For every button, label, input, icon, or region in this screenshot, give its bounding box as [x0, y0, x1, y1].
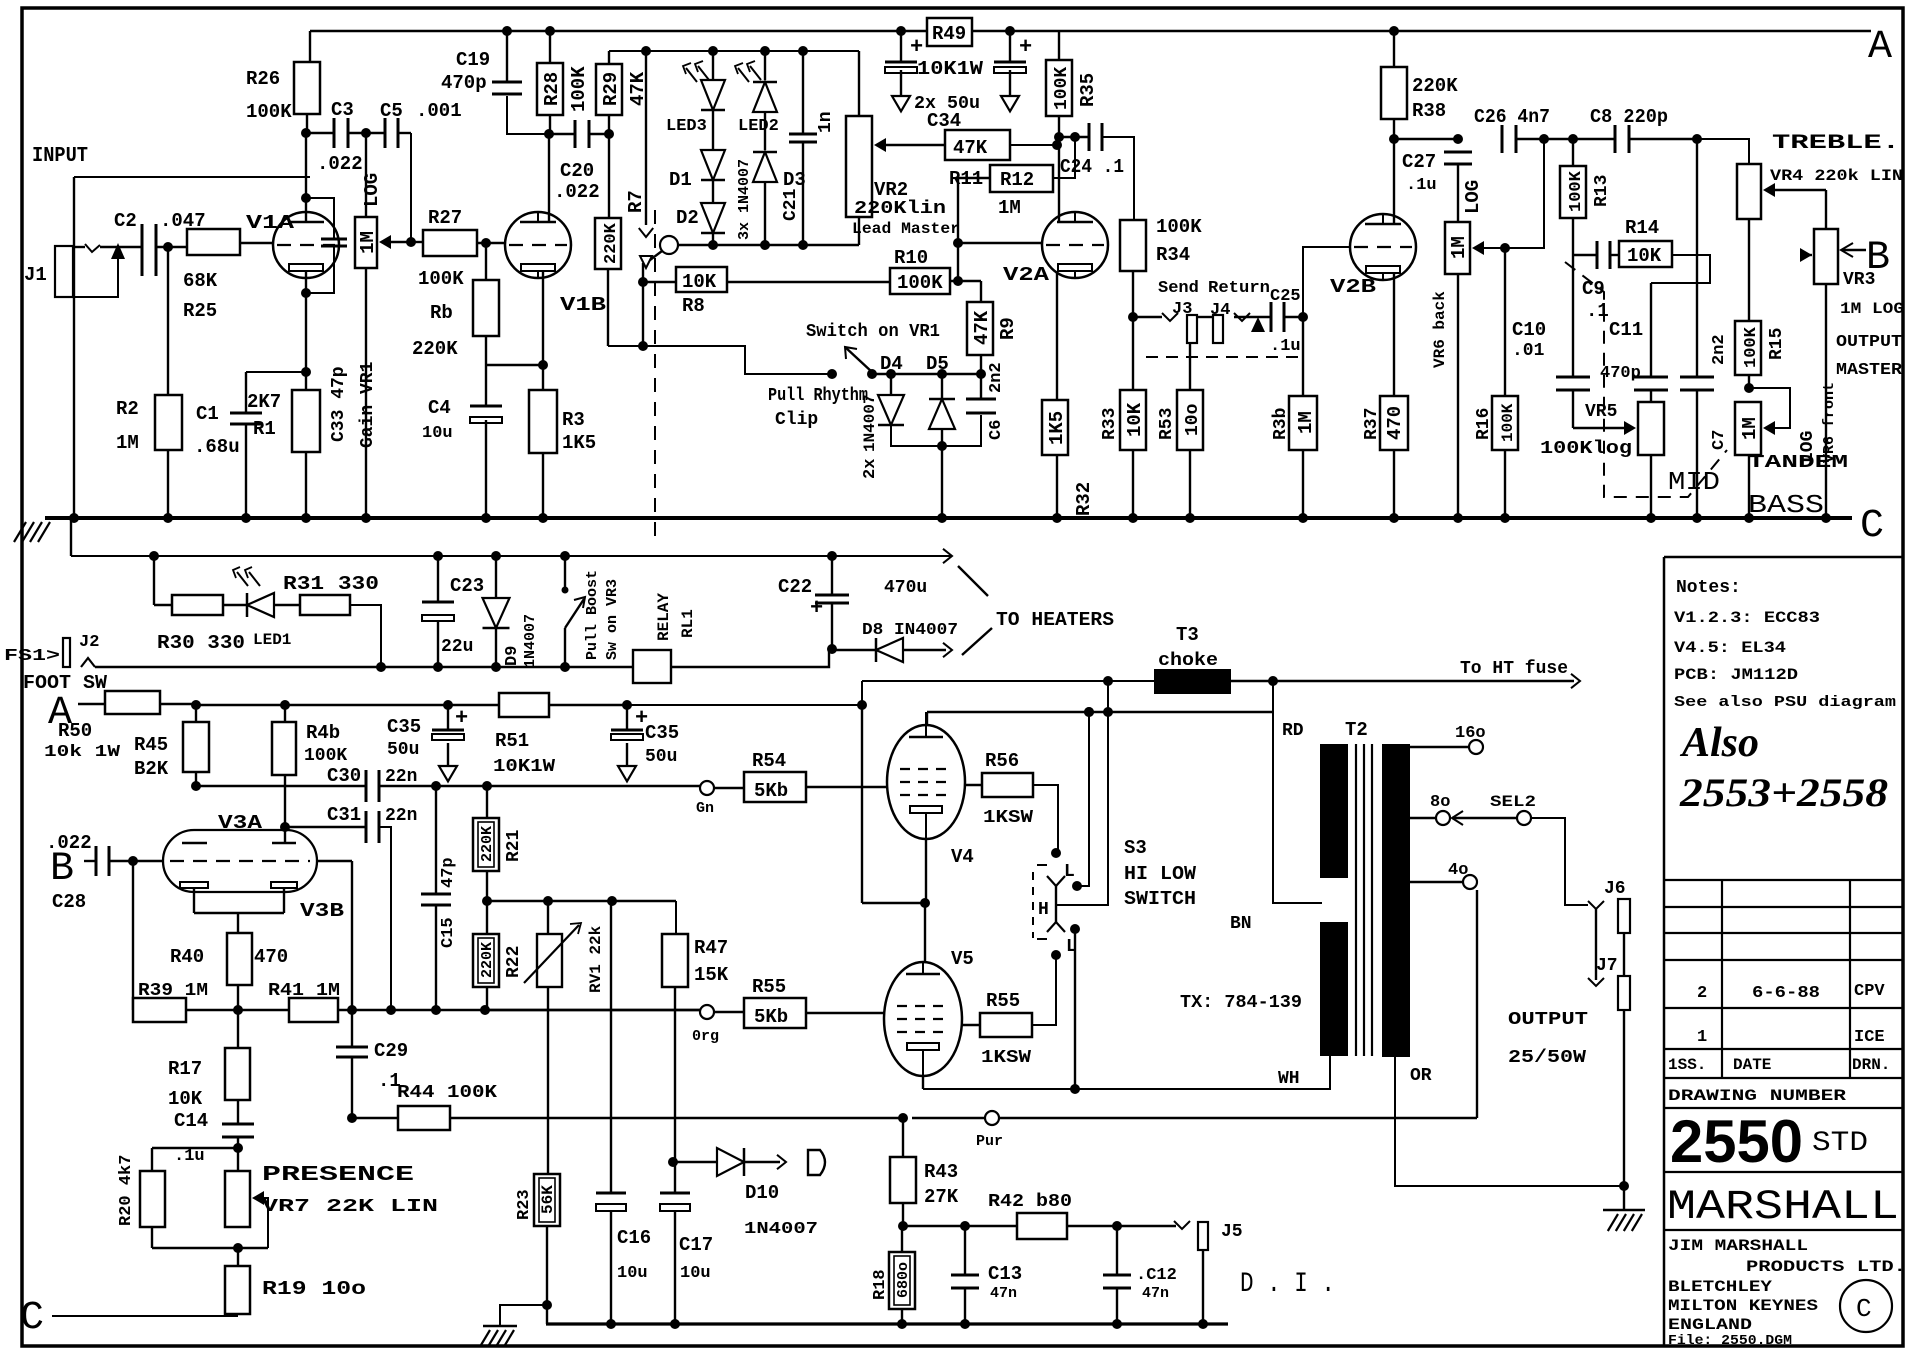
svg-text:R35: R35 — [1077, 73, 1099, 107]
svg-text:R14: R14 — [1625, 217, 1659, 239]
svg-text:C21: C21 — [781, 188, 801, 221]
capacitor C10 — [1512, 255, 1590, 428]
junction select/R8 — [638, 263, 648, 287]
svg-text:TREBLE.: TREBLE. — [1772, 132, 1900, 155]
junction D3 bottom — [760, 240, 770, 250]
svg-text:MASTER: MASTER — [1836, 361, 1903, 380]
svg-text:D1: D1 — [669, 169, 692, 191]
svg-text:1M: 1M — [357, 231, 379, 254]
switch on V1B grid — [640, 236, 678, 268]
svg-text:2553+2558: 2553+2558 — [1679, 770, 1888, 815]
junction bus x366 — [361, 513, 371, 523]
svg-text:1SS.: 1SS. — [1668, 1056, 1706, 1074]
resistor R18 — [871, 1226, 915, 1324]
svg-text:WH: WH — [1278, 1069, 1300, 1089]
svg-text:VR7 22K LIN: VR7 22K LIN — [262, 1197, 438, 1217]
junction LED3 bottom — [708, 240, 718, 250]
junction power bus x675 — [670, 1319, 680, 1329]
wire V2A anode — [1054, 132, 1064, 222]
resistor R26 — [246, 62, 320, 133]
svg-text:R27: R27 — [428, 207, 462, 229]
capacitor C28 — [46, 832, 163, 913]
svg-text:MILTON KEYNES: MILTON KEYNES — [1668, 1297, 1818, 1315]
svg-text:100K: 100K — [418, 268, 464, 290]
svg-text:47K: 47K — [953, 137, 988, 159]
svg-text:470u: 470u — [884, 578, 927, 598]
svg-text:C20: C20 — [560, 160, 594, 182]
capacitor C5 — [348, 100, 462, 148]
capacitor C9 — [1573, 241, 1619, 322]
resistor R1 — [247, 293, 320, 518]
svg-text:H: H — [1038, 900, 1049, 920]
svg-text:R30 330: R30 330 — [157, 632, 245, 654]
diode D5 — [926, 353, 955, 429]
label PSU note — [1674, 694, 1896, 711]
resistor R16 — [1474, 243, 1518, 518]
svg-text:See also PSU diagram: See also PSU diagram — [1674, 694, 1896, 711]
svg-text:R25: R25 — [183, 300, 217, 322]
svg-text:D5: D5 — [926, 353, 949, 375]
svg-text:Pull Rhythm: Pull Rhythm — [768, 386, 868, 406]
resistor R12 — [958, 132, 1080, 219]
svg-text:R13: R13 — [1592, 175, 1612, 207]
svg-text:PRODUCTS LTD.: PRODUCTS LTD. — [1746, 1258, 1906, 1276]
svg-text:R12: R12 — [1000, 169, 1034, 191]
resistor R32 — [1042, 272, 1095, 518]
svg-text:R7: R7 — [625, 190, 647, 213]
svg-text:+: + — [1019, 35, 1032, 60]
capacitor C14 — [174, 1110, 254, 1171]
capacitor C1 — [194, 372, 306, 518]
label VR6 back — [1431, 291, 1449, 368]
triode V2A — [1003, 212, 1108, 286]
node B right edge — [1866, 236, 1890, 281]
svg-text:.C12: .C12 — [1136, 1266, 1177, 1285]
handwritten 2553+2558 — [1679, 770, 1888, 815]
wire S3 L top — [1077, 707, 1094, 886]
junction C2/R2 — [163, 242, 173, 252]
svg-text:RELAY: RELAY — [655, 593, 673, 641]
svg-text:.022: .022 — [554, 181, 600, 203]
capacitor C24 — [1059, 123, 1134, 220]
label rev 1 — [1697, 1028, 1885, 1047]
svg-text:10K: 10K — [1124, 402, 1146, 437]
wire C5 to wiper — [411, 133, 423, 242]
svg-text:V1B: V1B — [560, 294, 606, 316]
capacitor C33 — [306, 198, 349, 442]
capacitor C7 — [1680, 134, 1729, 518]
svg-text:C: C — [1856, 1294, 1872, 1324]
label VR3 — [1840, 270, 1904, 318]
svg-text:2550: 2550 — [1670, 1108, 1803, 1175]
triode V2B — [1330, 214, 1416, 298]
svg-text:R3b: R3b — [1271, 408, 1291, 440]
resistor R54 — [744, 750, 887, 802]
resistor R6 — [412, 243, 499, 365]
label TREBLE — [1772, 132, 1900, 155]
svg-text:100K: 100K — [304, 746, 347, 766]
svg-text:VR2: VR2 — [874, 179, 908, 201]
svg-text:.1u: .1u — [174, 1147, 205, 1166]
svg-text:.1: .1 — [1586, 300, 1609, 322]
junction bus x1303 — [1298, 513, 1308, 523]
svg-text:.022: .022 — [46, 832, 92, 854]
pentode V4 — [887, 725, 974, 868]
svg-text:220K: 220K — [479, 942, 496, 978]
svg-text:R18: R18 — [871, 1269, 890, 1300]
svg-text:Return: Return — [1208, 279, 1270, 298]
svg-text:R55: R55 — [752, 976, 786, 998]
wire cathode link — [486, 360, 548, 370]
resistor R23 — [515, 1174, 560, 1324]
junction C22/D8 — [827, 644, 837, 654]
svg-text:R20 4k7: R20 4k7 — [117, 1155, 136, 1226]
svg-text:2K7: 2K7 — [247, 391, 281, 413]
choke T3 — [1154, 624, 1231, 694]
capacitor C11 — [1600, 283, 1668, 402]
transformer T2 secondary — [1382, 744, 1410, 1057]
svg-text:LED1: LED1 — [253, 631, 291, 649]
tap 8 ohm — [1410, 793, 1516, 825]
svg-text:choke: choke — [1158, 651, 1218, 671]
junction bus x1190 — [1185, 513, 1195, 523]
svg-text:D4: D4 — [880, 353, 903, 375]
svg-text:+: + — [910, 35, 923, 60]
wire HT rail A — [310, 30, 1871, 33]
junction bus x1394 — [1389, 513, 1399, 523]
svg-text:R23: R23 — [515, 1189, 534, 1220]
svg-text:R49: R49 — [932, 23, 966, 45]
label PCB note — [1674, 666, 1798, 684]
svg-text:Switch on VR1: Switch on VR1 — [806, 322, 940, 342]
svg-text:V1A: V1A — [246, 212, 295, 234]
svg-text:TANDEM: TANDEM — [1748, 453, 1848, 473]
svg-text:Clip: Clip — [775, 410, 818, 430]
svg-text:R33: R33 — [1100, 408, 1120, 440]
jack J7 — [1588, 956, 1630, 1010]
svg-text:R56: R56 — [985, 750, 1019, 772]
resistor R31 — [283, 573, 386, 672]
capacitor C6 — [966, 362, 1006, 440]
label MID — [1668, 467, 1720, 497]
svg-text:R16: R16 — [1474, 408, 1494, 440]
junction bus x246 — [241, 513, 251, 523]
svg-text:OR: OR — [1410, 1066, 1432, 1086]
capacitor C20 — [549, 120, 609, 203]
svg-text:C6: C6 — [987, 420, 1006, 440]
wire presence bottom — [152, 1243, 268, 1253]
svg-text:C31: C31 — [327, 804, 361, 826]
label rev 2 — [1697, 982, 1885, 1003]
svg-text:470: 470 — [1384, 406, 1406, 440]
label Notes — [1676, 578, 1741, 598]
label JIM MARSHALL — [1668, 1237, 1808, 1255]
svg-text:STD: STD — [1812, 1128, 1868, 1159]
wire V2B grid feed — [1303, 247, 1350, 317]
svg-text:10K1W: 10K1W — [917, 58, 984, 80]
svg-text:MID: MID — [1668, 467, 1720, 497]
svg-text:SEL2: SEL2 — [1490, 793, 1536, 811]
pentode V5 — [884, 903, 974, 1076]
label RELAY RL1 — [655, 593, 697, 641]
resistor R33 — [1100, 317, 1146, 518]
label ISS DATE DRN — [1668, 1056, 1890, 1074]
svg-text:R11: R11 — [949, 168, 983, 190]
jack J1 — [24, 246, 85, 297]
svg-text:RL1: RL1 — [679, 609, 697, 638]
svg-text:S3: S3 — [1124, 837, 1147, 859]
diode D1 — [669, 110, 725, 191]
svg-text:C27: C27 — [1402, 151, 1436, 173]
svg-text:1K5: 1K5 — [562, 432, 596, 454]
svg-text:R39 1M: R39 1M — [138, 981, 208, 1001]
capacitor C25 — [1270, 287, 1303, 356]
svg-text:LOG: LOG — [361, 173, 383, 207]
svg-text:.001: .001 — [416, 100, 462, 122]
svg-text:V1.2.3: ECC83: V1.2.3: ECC83 — [1674, 609, 1820, 627]
label OUTPUT 25/50W — [1508, 1010, 1588, 1068]
svg-text:220Klin: 220Klin — [854, 199, 946, 219]
svg-text:T2: T2 — [1345, 719, 1368, 741]
capacitor C31 — [280, 804, 417, 1010]
svg-text:100K: 100K — [568, 66, 590, 112]
junction bus x1505 — [1500, 513, 1510, 523]
svg-text:220K: 220K — [1412, 75, 1458, 97]
label C34 — [927, 110, 961, 132]
resistor R43 — [890, 1118, 959, 1226]
capacitor C15 — [421, 786, 458, 1010]
svg-text:C23: C23 — [450, 575, 484, 597]
wire V1B cathode — [542, 271, 544, 390]
wire Gn line — [696, 781, 744, 817]
svg-text:VR6 back: VR6 back — [1431, 291, 1449, 368]
svg-text:25/50W: 25/50W — [1508, 1048, 1586, 1068]
ground speaker — [1603, 1186, 1645, 1231]
svg-text:470p: 470p — [1600, 364, 1641, 383]
svg-text:15K: 15K — [694, 964, 729, 986]
svg-text:100K: 100K — [1567, 170, 1586, 212]
wire clipper bottom — [891, 415, 981, 518]
switch S3 — [1033, 848, 1082, 960]
label Pull Boost / Sw on VR3 — [584, 570, 621, 660]
label S3 HI LOW SWITCH — [1124, 837, 1197, 910]
svg-text:47K: 47K — [971, 310, 993, 345]
svg-text:LED2: LED2 — [738, 117, 779, 136]
svg-text:J7: J7 — [1596, 956, 1618, 976]
jack J3 send — [1133, 279, 1199, 343]
resistor R30 — [149, 551, 246, 654]
junction power bus x902 — [897, 1319, 907, 1329]
svg-text:10K: 10K — [682, 271, 717, 293]
resistor R50 — [44, 691, 196, 762]
resistor R28 — [537, 63, 590, 134]
wire bias line — [186, 1005, 707, 1015]
svg-text:2n2: 2n2 — [987, 362, 1006, 393]
svg-text:10K1W: 10K1W — [493, 757, 555, 777]
wire C5 select feed — [639, 46, 653, 237]
svg-text:D2: D2 — [676, 207, 699, 229]
svg-text:1n: 1n — [816, 111, 836, 133]
junction C1 tap — [301, 367, 311, 377]
svg-text:50u: 50u — [645, 747, 677, 767]
led LED2 — [735, 46, 779, 136]
junction bus x1697 — [1692, 513, 1702, 523]
junction bus x1057 — [1052, 513, 1062, 523]
svg-text:V4: V4 — [951, 846, 974, 868]
svg-text:VR6 front: VR6 front — [1821, 382, 1838, 463]
junction R39 tap — [128, 856, 138, 866]
junction bus x543 — [538, 513, 548, 523]
diode D8 — [832, 621, 958, 662]
wire OR — [1395, 1057, 1629, 1191]
svg-text:680o: 680o — [895, 1262, 912, 1298]
label Switch on VR1 — [806, 322, 940, 342]
wire Pur line — [898, 1111, 1477, 1150]
wire J1 ground loop — [74, 176, 310, 178]
svg-text:VR5: VR5 — [1585, 402, 1617, 422]
resistor R36 — [1271, 317, 1317, 518]
capacitor C35 right — [611, 700, 679, 781]
svg-text:R42 b80: R42 b80 — [988, 1192, 1072, 1212]
svg-text:C17: C17 — [679, 1234, 713, 1256]
node A left (foot sw) — [48, 691, 72, 736]
resistor R17 — [168, 1010, 250, 1124]
svg-text:100K: 100K — [1156, 216, 1202, 238]
label 2550 — [1670, 1108, 1868, 1175]
junction R46 tap — [280, 700, 290, 710]
dual triode V3 — [163, 812, 344, 922]
junction R43 bottom — [898, 1221, 908, 1231]
resistor R19 — [225, 1248, 366, 1314]
triode V1B — [505, 212, 606, 316]
svg-text:R53: R53 — [1157, 408, 1177, 440]
svg-text:R44 100K: R44 100K — [397, 1083, 497, 1103]
junction bus x486 — [481, 513, 491, 523]
capacitor C34 left — [885, 31, 923, 111]
svg-text:TO HEATERS: TO HEATERS — [996, 609, 1114, 631]
junction R26/C3 — [301, 128, 311, 138]
wire VR1 bottom — [365, 268, 367, 518]
capacitor C29 — [336, 1010, 408, 1118]
svg-text:1K5: 1K5 — [1046, 411, 1068, 445]
svg-text:BN: BN — [1230, 914, 1252, 934]
label Pull Rhythm — [768, 386, 868, 406]
potentiometer VR2 — [846, 51, 886, 245]
resistor R39 — [133, 861, 208, 1022]
svg-text:LED3: LED3 — [666, 117, 707, 136]
svg-text:R31 330: R31 330 — [283, 573, 379, 595]
svg-text:1: 1 — [1697, 1028, 1707, 1047]
svg-text:R55: R55 — [986, 990, 1020, 1012]
label BLETCHLEY — [1668, 1278, 1772, 1296]
diode D10 — [668, 1148, 818, 1239]
capacitor C17 — [660, 1162, 713, 1324]
svg-text:1M: 1M — [116, 432, 139, 454]
svg-text:V2A: V2A — [1003, 264, 1050, 286]
switch SEL2 — [1490, 793, 1588, 905]
svg-text:R22: R22 — [504, 946, 524, 978]
svg-text:OUTPUT: OUTPUT — [1836, 333, 1902, 352]
label BASS — [1748, 490, 1824, 520]
capacitor C12 — [1103, 1226, 1177, 1324]
svg-text:R8: R8 — [682, 295, 705, 317]
label VR6 back LOG — [1462, 180, 1484, 214]
svg-text:Also: Also — [1679, 720, 1759, 766]
svg-text:C25: C25 — [1270, 287, 1301, 306]
resistor R8 — [643, 267, 890, 317]
svg-text:3x 1N4007: 3x 1N4007 — [736, 159, 753, 240]
svg-text:R38: R38 — [1412, 100, 1446, 122]
svg-text:D . I .: D . I . — [1240, 1269, 1335, 1300]
resistor R27 — [411, 207, 505, 290]
label PRODUCTS LTD — [1746, 1258, 1906, 1276]
wire LED sub-rail — [609, 50, 859, 52]
svg-text:D10: D10 — [745, 1182, 779, 1204]
svg-text:47p: 47p — [439, 857, 458, 888]
svg-text:1M LOG: 1M LOG — [1840, 300, 1904, 318]
wire V3B grid — [317, 861, 352, 1010]
svg-text:To HT fuse: To HT fuse — [1460, 659, 1568, 679]
svg-text:C28: C28 — [52, 891, 86, 913]
junction bus x1826 — [1821, 513, 1831, 523]
svg-text:V5: V5 — [951, 948, 974, 970]
wire A rail to HT — [627, 681, 867, 710]
resistor R35 — [1046, 60, 1099, 137]
junction bus x942 — [937, 513, 947, 523]
svg-text:50u: 50u — [387, 740, 419, 760]
svg-text:FOOT SW: FOOT SW — [23, 672, 108, 694]
svg-text:J3: J3 — [1172, 300, 1192, 319]
junction R49 right — [1005, 26, 1015, 36]
svg-text:.1u: .1u — [1406, 176, 1437, 195]
junction power bus x611 — [606, 1319, 616, 1329]
label TO HEATERS — [958, 566, 1114, 655]
svg-text:1M: 1M — [1448, 236, 1470, 259]
wire MID dashed boundary — [1565, 262, 1727, 497]
resistor R41 — [268, 981, 340, 1022]
svg-text:R50: R50 — [58, 720, 92, 742]
svg-text:0rg: 0rg — [692, 1028, 719, 1045]
resistor R15 — [1735, 321, 1787, 393]
wire R38 feed — [1389, 26, 1399, 67]
wire V1B select line — [678, 244, 859, 246]
svg-text:C4: C4 — [428, 397, 451, 419]
svg-text:BASS: BASS — [1748, 490, 1824, 520]
resistor R46 — [272, 705, 347, 843]
svg-text:5Kb: 5Kb — [754, 780, 788, 802]
jack J1 switch contact — [56, 237, 125, 297]
svg-text:C11: C11 — [1609, 319, 1643, 341]
svg-text:JIM MARSHALL: JIM MARSHALL — [1668, 1237, 1808, 1255]
svg-text:.01: .01 — [1512, 341, 1545, 361]
handwritten Also — [1679, 720, 1759, 766]
svg-text:220K: 220K — [412, 338, 458, 360]
label INPUT — [32, 145, 88, 168]
wire channel dashed boundary — [654, 210, 656, 545]
diode D4 — [861, 353, 904, 452]
svg-text:C10: C10 — [1512, 319, 1546, 341]
svg-text:R54: R54 — [752, 750, 786, 772]
junction R6 tap — [481, 238, 491, 248]
label MARSHALL — [1667, 1183, 1899, 1231]
svg-text:R47: R47 — [694, 937, 728, 959]
svg-text:Lead Master: Lead Master — [852, 220, 960, 238]
svg-text:ENGLAND: ENGLAND — [1668, 1316, 1752, 1334]
svg-text:R2: R2 — [116, 398, 139, 420]
svg-text:C8 220p: C8 220p — [1590, 106, 1668, 128]
svg-text:10o: 10o — [1183, 404, 1203, 436]
svg-text:CPV: CPV — [1854, 982, 1885, 1001]
